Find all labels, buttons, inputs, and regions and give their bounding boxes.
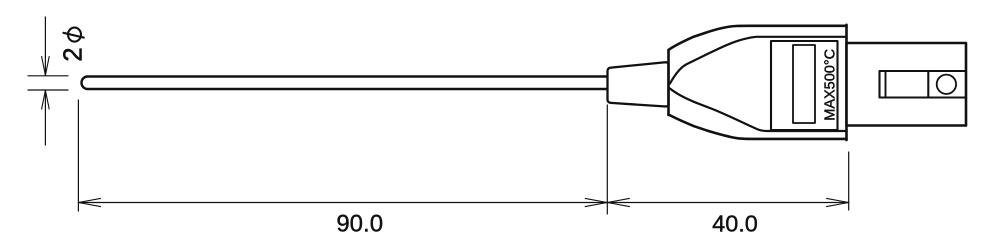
symbol φ: stem [63,33,83,38]
latch circle [937,75,956,94]
handle outer top curve + head top edge [669,26,847,50]
dimension line 40.0 [607,202,848,204]
connector body rectangle [847,43,967,126]
symbol φ: bowl [68,28,81,42]
svg-text:90.0: 90.0 [336,211,383,238]
diameter dimension: upper leader line with down arrow [44,17,46,75]
white label window [793,45,815,123]
handle body outline (flare front edge) [667,50,670,115]
extension line under ferrule [606,105,608,214]
diameter dimension: lower leader line with up arrow [44,90,46,145]
inner top curve from cone vertex [670,37,845,84]
slot divider line [927,71,929,98]
probe sheath (stadium outline) [81,77,607,90]
diameter dimension: upper tick [28,75,68,77]
slot left inner line [885,71,887,98]
svg-text:40.0: 40.0 [712,211,758,237]
diameter dimension: lower tick [28,89,68,91]
handle outer bottom curve + head bottom edge [669,115,847,139]
extension line under connector left [848,152,850,210]
ferrule (tapered bung between probe and handle) [608,62,669,106]
extension line under probe tip [77,100,79,211]
connector slot outline [880,71,966,98]
inner bottom curve from cone vertex [670,89,845,132]
svg-text:MAX500°C: MAX500°C [823,49,839,121]
dimension line 90.0 [78,202,607,204]
label frame rectangle [771,41,838,130]
head right edge [845,25,848,140]
svg-text:2: 2 [60,47,88,61]
